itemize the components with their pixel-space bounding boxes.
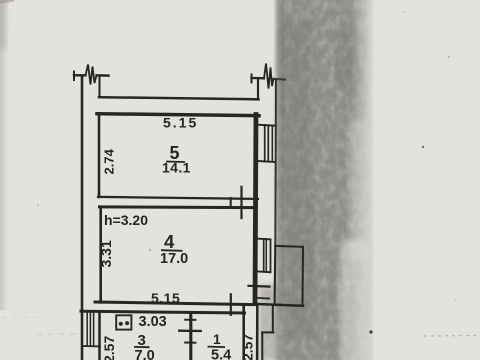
wall: inner corner vertical top-left [99, 77, 101, 97]
window W4 right edge [270, 239, 272, 272]
svg-text:5.15: 5.15 [163, 115, 198, 131]
window W5 top edge [257, 125, 276, 126]
duct bottom edge [83, 345, 100, 347]
window W4 pane line 2 [265, 239, 267, 272]
wall: room 4 bottom [95, 302, 257, 305]
wall: left outer wall [81, 76, 84, 360]
speck top right [448, 56, 450, 58]
underline room 4 [161, 249, 183, 252]
svg-text:5.4: 5.4 [211, 348, 231, 360]
wall: bay left vertical [261, 332, 263, 360]
balcony door tick lower [257, 297, 270, 300]
window W4 top edge [257, 238, 271, 241]
window W4 bottom edge [257, 270, 271, 273]
underline room 5 [166, 161, 185, 164]
door tick lower on wall 3/1 [185, 342, 195, 344]
faint pencil dashes left of wall [2, 316, 48, 318]
svg-text:3.03: 3.03 [139, 314, 167, 330]
svg-text:1: 1 [213, 331, 221, 347]
window W5 pane line 2 [267, 125, 269, 161]
speck left [37, 204, 39, 206]
balcony bottom edge / wall step [255, 304, 304, 306]
wire: top outer wall right end cap [251, 75, 253, 83]
wall: right outer wall lower part [274, 246, 277, 305]
wire: top outer wall right segment [252, 77, 265, 80]
speck near right middle [422, 146, 424, 148]
duct hatch line 1 [86, 313, 88, 346]
wall: room 5 top [97, 114, 259, 116]
stove burner right [125, 321, 129, 325]
scan corner mark top-left [0, 0, 14, 2]
duct hatch line 3 [93, 313, 95, 346]
wall: between rooms 3 and 1 [189, 313, 192, 360]
svg-text:4: 4 [164, 231, 175, 252]
balcony door tick upper [249, 285, 270, 288]
wall: room 1 right [242, 305, 245, 360]
door jamb tick near hall [230, 294, 232, 315]
duct hatch line 2 [89, 313, 91, 346]
wall: room 4 top (lower line of party wall) [100, 205, 257, 209]
wall: kitchen left [98, 313, 101, 360]
svg-text:3.31: 3.31 [98, 240, 114, 267]
wall: inner top wall [99, 97, 259, 99]
wall: inner corner vertical top-right [257, 79, 259, 99]
speck right lower [454, 299, 456, 301]
dimension / room texts [98, 115, 256, 360]
door jamb connector in party wall 5/4 [230, 198, 232, 207]
wire: top outer wall right segment after break [274, 78, 286, 81]
door leaf tick middle on wall 3/1 [179, 330, 201, 333]
wall: lower-right vertical after step [256, 306, 259, 360]
underline room 1 [208, 346, 226, 349]
wall: right thick bearing wall [255, 115, 256, 304]
svg-text:14.1: 14.1 [162, 160, 191, 176]
speck top [403, 11, 405, 13]
door jamb tick in party wall 5/4 [240, 187, 242, 218]
wire: top outer wall left end cap [73, 72, 75, 81]
wall: room 5 bottom (upper line of party wall) [98, 197, 258, 199]
stove burner left [119, 322, 123, 326]
break symbol right [264, 64, 274, 89]
svg-text:7.0: 7.0 [135, 348, 155, 360]
balcony right edge [302, 247, 305, 306]
svg-text:5.15: 5.15 [151, 290, 180, 306]
window W5 pane line 1 [264, 125, 266, 161]
svg-text:h=3.20: h=3.20 [104, 212, 148, 228]
wall: bay right vertical [272, 306, 274, 333]
photocopy toner band lower-left extension [259, 284, 281, 360]
svg-text:2.74: 2.74 [102, 148, 117, 174]
svg-text:2.57: 2.57 [101, 336, 117, 360]
speck bottom right [369, 330, 372, 333]
floor plan line work [74, 64, 303, 360]
svg-text:17.0: 17.0 [160, 251, 188, 267]
stove outline [116, 315, 131, 329]
wall: room 5 left [98, 114, 101, 197]
window W5 bottom edge [257, 161, 276, 162]
faint dotted line bottom right [424, 335, 480, 338]
balcony top edge [276, 245, 304, 248]
window W5 pane line 3 [271, 125, 273, 161]
wall: right outer wall upper part [274, 80, 277, 246]
faint pencil dashes bottom left [37, 333, 78, 336]
wall: bay bottom horizontal [262, 331, 274, 333]
underline room 3 [134, 346, 150, 348]
door tick upper on wall 3/1 [185, 319, 195, 321]
wall: room 4 left [99, 207, 102, 303]
wire: top outer wall left segment after break [97, 74, 109, 77]
wire: top outer wall left segment [74, 74, 86, 76]
photocopy toner band [270, 0, 375, 360]
break symbol left [86, 65, 97, 85]
scan corner smudge top-left [0, 0, 7, 49]
speck room 4 [149, 249, 151, 251]
window W4 pane line 1 [263, 239, 265, 272]
left scan edge shadow [0, 0, 8, 310]
svg-text:2.57: 2.57 [240, 334, 256, 360]
wall: hall bottom wall W2 [81, 311, 245, 313]
